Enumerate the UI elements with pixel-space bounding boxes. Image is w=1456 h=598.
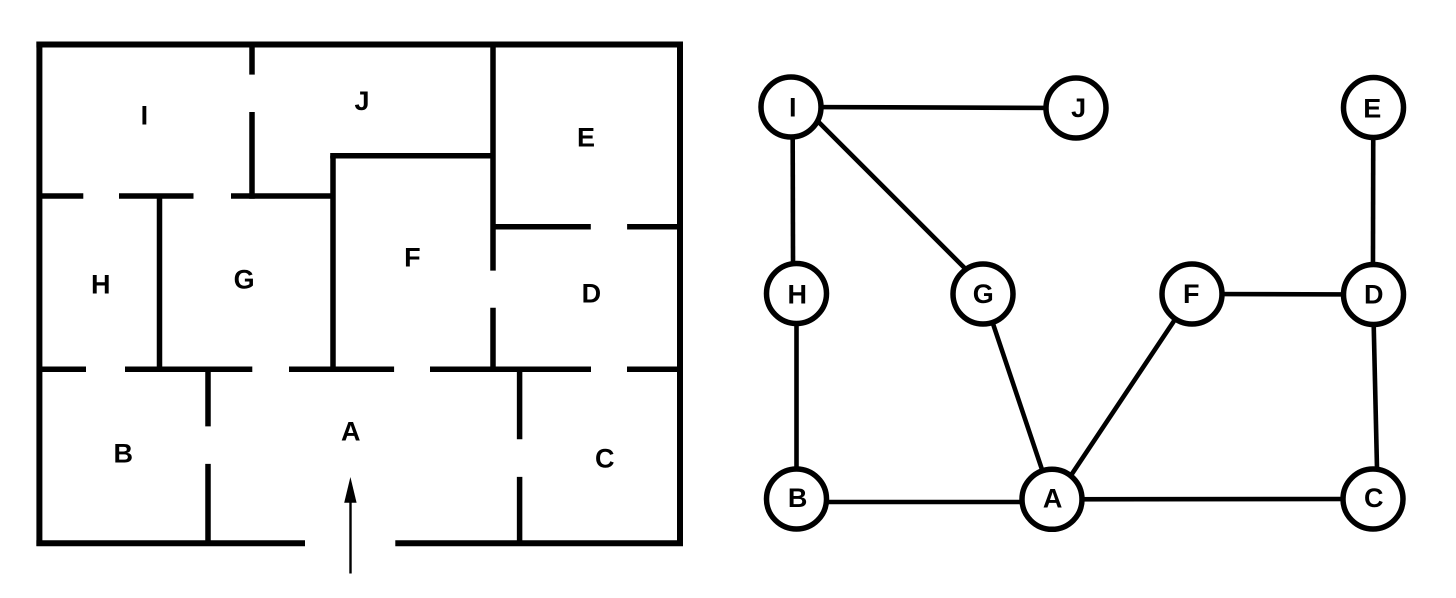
svg-text:E: E bbox=[1363, 93, 1381, 123]
svg-text:D: D bbox=[1364, 279, 1384, 309]
svg-text:H: H bbox=[91, 270, 111, 300]
svg-text:H: H bbox=[787, 280, 807, 310]
svg-text:I: I bbox=[789, 93, 797, 123]
svg-text:F: F bbox=[1183, 279, 1200, 309]
svg-text:A: A bbox=[1043, 483, 1063, 513]
svg-text:G: G bbox=[973, 279, 994, 309]
svg-text:D: D bbox=[582, 279, 602, 309]
svg-text:I: I bbox=[141, 101, 149, 131]
svg-text:J: J bbox=[354, 86, 369, 116]
svg-text:G: G bbox=[234, 265, 255, 295]
svg-text:B: B bbox=[113, 439, 133, 469]
svg-text:E: E bbox=[577, 123, 595, 153]
svg-text:C: C bbox=[1364, 483, 1384, 513]
svg-text:J: J bbox=[1071, 93, 1086, 123]
svg-text:A: A bbox=[341, 417, 361, 447]
svg-text:B: B bbox=[788, 483, 808, 513]
svg-text:C: C bbox=[595, 444, 615, 474]
svg-text:F: F bbox=[404, 242, 421, 272]
